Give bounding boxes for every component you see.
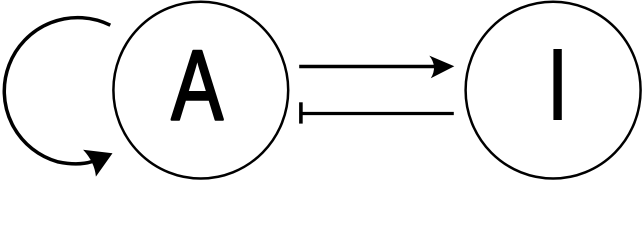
state circle I xyxy=(466,2,641,179)
inhibition T-bar xyxy=(299,102,303,123)
self-loop arc on A xyxy=(4,18,110,164)
state circle A xyxy=(113,2,288,179)
inhibition line I to A xyxy=(301,112,454,115)
self-loop arrowhead xyxy=(83,150,112,177)
svg-text:I: I xyxy=(545,26,570,142)
activation arrowhead xyxy=(429,56,454,79)
svg-text:A: A xyxy=(171,29,223,141)
activation arrow shaft A to I xyxy=(299,65,434,68)
